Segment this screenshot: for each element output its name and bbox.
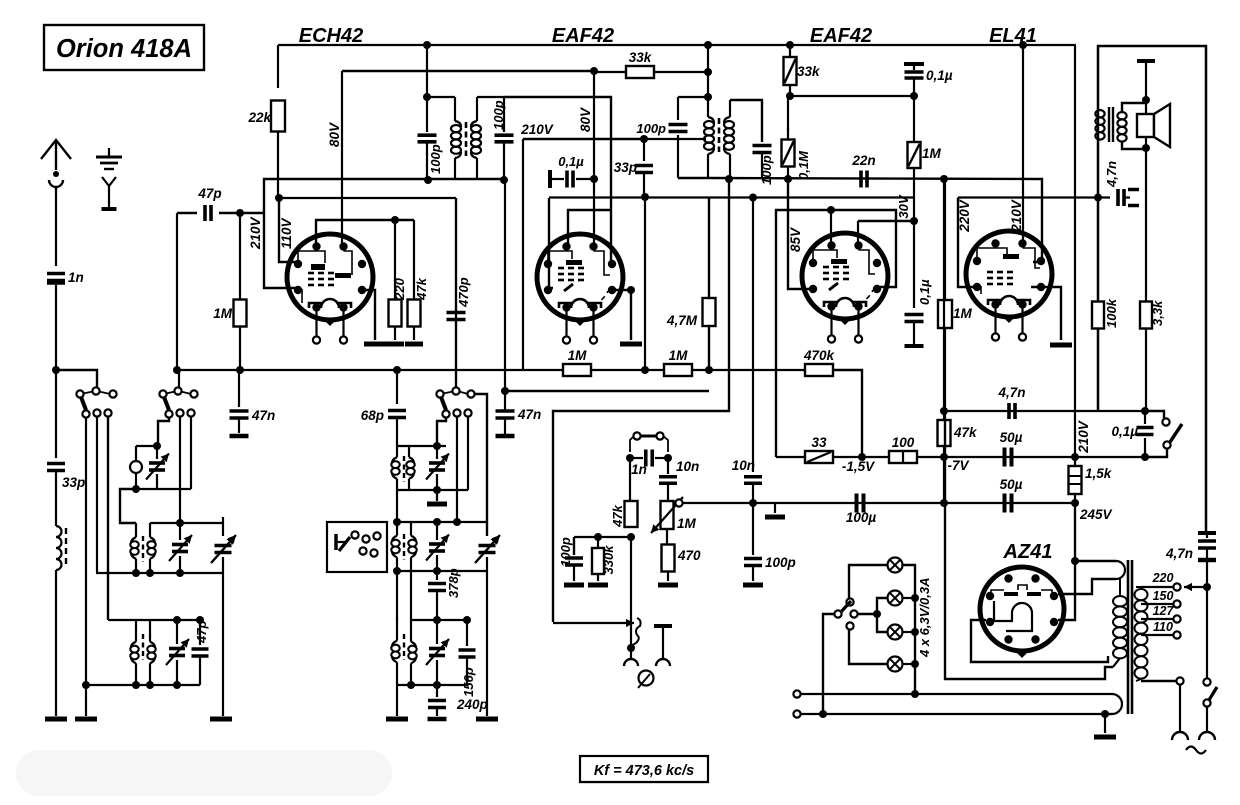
wire 110V grid [279, 198, 299, 262]
tube ECH42 bottom leads [315, 311, 317, 337]
svg-text:210V: 210V [248, 216, 263, 250]
wire bias row [776, 456, 806, 458]
tube EL41 bottom leads [994, 308, 996, 334]
resistor 470 [666, 529, 668, 545]
resistor 220 [394, 220, 396, 300]
svg-text:1M: 1M [213, 306, 233, 321]
ground EL41 [1050, 343, 1072, 348]
svg-text:1M: 1M [669, 348, 689, 363]
antenna symbol [55, 141, 57, 170]
svg-text:240p: 240p [456, 697, 488, 712]
wire x944 179to411 [943, 179, 945, 420]
wire 22k grid right [279, 197, 456, 199]
capacitor 47p osc [199, 620, 201, 645]
svg-text:470p: 470p [456, 277, 471, 308]
capacitor 47n second [504, 180, 506, 391]
node -1,5V [858, 453, 866, 461]
wire switchA c1 [85, 417, 87, 716]
node 1n left [626, 454, 634, 462]
mains tilde [1186, 747, 1206, 754]
wire 80V down to ECH42 anode [341, 71, 343, 250]
svg-text:110V: 110V [279, 217, 294, 249]
svg-text:100p: 100p [558, 537, 573, 567]
wire 80V EAF42 line [593, 71, 595, 244]
svg-text:100p: 100p [759, 155, 774, 185]
IF1 primary coil [454, 97, 456, 121]
wire wiper y503 [683, 502, 1075, 504]
wire avc y537 [574, 536, 631, 538]
T4 right winding [410, 522, 412, 536]
svg-text:100µ: 100µ [846, 510, 877, 525]
T2 trimmer [179, 523, 181, 540]
node 10n det bottom [749, 499, 757, 507]
wire x790 diode [788, 179, 812, 289]
output transformer secondary coil [1117, 112, 1126, 119]
tube EAF42a internals [548, 251, 572, 267]
resistor 33k horizontal [594, 71, 627, 73]
node 1n right [664, 454, 672, 462]
wire IF1 primary feed [426, 45, 428, 97]
svg-text:470k: 470k [803, 348, 836, 363]
capacitor 1n AF [630, 457, 643, 459]
IF2 primary coil [707, 97, 709, 117]
wire y391 [505, 390, 709, 392]
capacitor 0,1u switch [1144, 411, 1146, 424]
svg-text:100p: 100p [428, 144, 443, 174]
svg-text:47n: 47n [517, 407, 541, 422]
tube EAF42a envelope [537, 234, 623, 320]
node switchA c1 bottom [82, 681, 90, 689]
node bus x645 [641, 366, 649, 374]
wire grid bus west [264, 179, 504, 288]
node 330k top [594, 533, 602, 541]
power transformer HV winding [1119, 579, 1121, 596]
tube ECH42 pins [312, 242, 320, 250]
T3 core [142, 634, 144, 660]
T2 top edge [150, 522, 223, 524]
svg-text:220: 220 [392, 277, 407, 300]
lamp wiring right [903, 565, 915, 694]
ground switchA [75, 717, 97, 722]
svg-text:156p: 156p [461, 667, 476, 697]
wire y197 long [549, 196, 914, 198]
svg-text:Kf = 473,6 kc/s: Kf = 473,6 kc/s [594, 763, 694, 779]
band switch box [327, 522, 387, 572]
wire main bus y370 [56, 370, 97, 388]
wire x1206 speaker to cap [1205, 46, 1207, 533]
svg-text:47k: 47k [414, 277, 429, 300]
capacitor 4,7n speaker [1116, 189, 1120, 206]
wire EAF42b TL pin [830, 210, 832, 246]
svg-text:1M: 1M [922, 146, 942, 161]
output transformer core [1108, 107, 1110, 142]
svg-text:100p: 100p [636, 121, 666, 136]
capacitor 68p [396, 370, 398, 404]
svg-text:33k: 33k [797, 64, 821, 79]
node x914 y221 [910, 217, 918, 225]
switch B [178, 370, 180, 388]
T5 trimmer [436, 620, 438, 644]
svg-text:50µ: 50µ [1000, 477, 1023, 492]
svg-text:210V: 210V [520, 122, 554, 137]
wire y139 to coil [644, 138, 706, 140]
wire 22k to grid node [277, 131, 279, 198]
resistor 47k ECH42 [413, 220, 415, 300]
osc2 bottom edge [397, 489, 468, 491]
svg-text:47p: 47p [194, 621, 209, 644]
svg-text:85V: 85V [788, 227, 803, 252]
T2 bottom edge [96, 572, 223, 574]
wire az41 filament LL [971, 620, 1108, 662]
resistor 470k [805, 364, 833, 376]
wire osc1 to T2 [120, 489, 136, 523]
node mains x1105 [1101, 710, 1109, 718]
switch C [452, 387, 459, 394]
svg-text:1n: 1n [631, 462, 647, 477]
lamp wiring left [849, 565, 887, 598]
capacitor 4,7n bias [1007, 403, 1011, 419]
speaker symbol [1137, 114, 1154, 137]
T4 left winding [396, 490, 398, 522]
tube EAF42a pins [562, 242, 570, 250]
phono arrow [553, 622, 634, 624]
wire ECH42 anode entry [342, 245, 344, 250]
resistor 47k AF [629, 458, 631, 502]
wire EL41 cathode ground [1031, 287, 1061, 340]
svg-text:33p: 33p [614, 160, 637, 175]
T4 trimmer [436, 522, 438, 540]
resistor 22k [271, 101, 285, 132]
node y71 x594 [590, 67, 598, 75]
osc1 trimmer [156, 446, 158, 459]
wire mains L2 [793, 710, 800, 717]
tube EAF42b envelope [802, 233, 888, 319]
osc1 coil [130, 461, 142, 473]
tube AZ41 pins [1004, 574, 1012, 582]
plug hook left [1172, 732, 1188, 740]
wire 30V to tube3 [858, 220, 914, 222]
node bus east x944 [940, 175, 948, 183]
capacitor 100p IF2 primary [677, 97, 679, 120]
svg-text:220V: 220V [957, 199, 972, 233]
tube EAF42a bottom leads [565, 311, 567, 337]
ground 470 [658, 583, 678, 588]
ground ECH42 [364, 342, 386, 347]
IF1 secondary top edge [477, 96, 504, 98]
wire AZ41 plate top [1035, 575, 1037, 579]
speaker top bar [1137, 59, 1155, 63]
node 68p top [393, 366, 401, 374]
wire top supply bus [278, 44, 1076, 46]
T3 left winding [135, 620, 137, 642]
resistor 1M anode EAF42b [913, 96, 915, 143]
wire heater bus 679 [945, 420, 1113, 679]
node tap arrow [1203, 583, 1211, 591]
svg-text:330k: 330k [601, 545, 616, 575]
node speaker bottom [1142, 144, 1150, 152]
ground y503 stub [774, 503, 776, 513]
wire y139 grid feed [523, 138, 644, 140]
wire EAF42 g2 inner [568, 210, 611, 246]
T3 right winding [149, 620, 151, 642]
wire switchB c2 [179, 416, 181, 523]
lamp L3 [888, 625, 903, 640]
node 245V [1071, 499, 1079, 507]
node bus 1n [52, 366, 60, 374]
svg-text:22k: 22k [247, 110, 272, 125]
capacitor 378p [436, 571, 438, 580]
svg-text:4,7n: 4,7n [1165, 546, 1193, 561]
resistor 100k [1092, 302, 1104, 329]
tuning gang right [486, 535, 488, 537]
IF1 core dashes [465, 122, 468, 156]
switch A [92, 387, 99, 394]
Kf box shadow line [579, 782, 709, 784]
svg-text:100p: 100p [765, 555, 796, 570]
phono squiggle [631, 618, 641, 646]
node x1145 y457 [1141, 453, 1149, 461]
node y197 x753 [749, 194, 757, 202]
ground 330k [588, 583, 608, 588]
power transformer heater loop [1112, 694, 1122, 714]
capacitor 0,1u coupling [548, 170, 552, 188]
wire az41 plate RL [1058, 561, 1075, 620]
ground 220 [386, 342, 404, 347]
wire EL41 anode drop [1022, 45, 1024, 243]
T2 right winding [149, 523, 151, 537]
IF2 secondary top edge [730, 100, 762, 142]
node bus x709 [705, 366, 713, 374]
svg-text:100k: 100k [1104, 298, 1119, 328]
wire 22k branch down [277, 45, 279, 88]
node top bus IF2 [704, 41, 712, 49]
ground 100p avc [564, 583, 584, 588]
tube ECH42 envelope [287, 234, 373, 320]
svg-text:4,7n: 4,7n [1104, 161, 1119, 188]
T3 top edge [108, 619, 200, 621]
node IF1 sec bottom [500, 176, 508, 184]
IF2 core dashes [718, 118, 721, 152]
capacitor 100p avc [573, 537, 575, 555]
node phono [627, 644, 635, 652]
wire tube3 TR pin up [857, 221, 859, 246]
svg-text:0,1M: 0,1M [796, 150, 811, 180]
wire transformer ground [1104, 714, 1106, 733]
node 220 top [391, 216, 399, 224]
osc2 right winding [408, 446, 410, 457]
osc2 trimmer [436, 446, 438, 459]
svg-text:150: 150 [1153, 589, 1174, 603]
tube AZ41 envelope [980, 567, 1064, 651]
earth ground symbol [108, 148, 110, 156]
resistor 1M bus right [664, 364, 692, 376]
tube EAF42b internals [813, 250, 837, 266]
node bus east 0,1M [784, 175, 792, 183]
wire speaker box [1098, 46, 1206, 535]
capacitor 100u [855, 494, 859, 513]
svg-text:47k: 47k [953, 425, 978, 440]
resistor 1M grid [239, 213, 241, 300]
resistor 1M bus left [563, 364, 591, 376]
wire 4,7n row [944, 410, 1145, 412]
capacitor 10n AF [667, 458, 669, 474]
ground T5 left [396, 685, 398, 716]
wire switchC c3 [467, 416, 469, 490]
svg-text:470: 470 [677, 548, 701, 563]
power transformer primary winding [1136, 586, 1141, 588]
node -7V [940, 453, 948, 461]
node top bus 33k vertical [786, 41, 794, 49]
wire EAF42a box left [549, 198, 553, 288]
tube ECH42 internals [298, 251, 325, 267]
resistor 33 bias [805, 451, 833, 463]
node 33k bottom [786, 92, 794, 100]
wire mains L1 [793, 690, 800, 697]
ground gang left [210, 717, 232, 722]
T2 core [142, 536, 144, 562]
svg-text:Orion 418A: Orion 418A [56, 35, 192, 63]
capacitor 1n antenna [55, 190, 57, 266]
mains switch right [1206, 590, 1208, 679]
tube EL41 envelope [966, 231, 1052, 317]
wire x944 457to503 [943, 457, 945, 503]
node x1145 y411 [1141, 407, 1149, 415]
capacitor 33p IF2 [643, 139, 645, 161]
osc2 top edge [397, 445, 446, 447]
bypass switch 1n [633, 432, 640, 439]
wire tap to plug [1141, 680, 1180, 682]
svg-text:1n: 1n [68, 270, 84, 285]
capacitor 50u first [1003, 448, 1007, 467]
capacitor 22n [859, 171, 863, 188]
svg-text:0,1µ: 0,1µ [926, 68, 953, 83]
wire switchC c2 [456, 416, 458, 522]
IF2 primary top edge [678, 96, 708, 98]
IF1 primary top edge [427, 96, 455, 98]
svg-text:EAF42: EAF42 [810, 25, 872, 47]
resistor 100 bias [889, 451, 917, 463]
wire IF1 sec top to EAF42 grid [504, 97, 611, 263]
wire IF2 primary feed [707, 45, 709, 97]
svg-text:127: 127 [1153, 604, 1175, 618]
wire switchC pivot [455, 198, 457, 388]
wire switchB bracket [158, 417, 169, 446]
lamp L1 [888, 558, 903, 573]
T3 bottom edge [85, 684, 200, 686]
wire 10n to 100p [752, 485, 754, 555]
wire switchA c2 [96, 416, 98, 573]
wire x645 up [644, 197, 646, 370]
tube EAF42b pins [827, 241, 835, 249]
phono jack symbol [639, 671, 654, 686]
svg-text:1M: 1M [568, 348, 588, 363]
capacitor 0,1u EAF42b [905, 313, 924, 317]
wire x914 to 0,1u [913, 221, 915, 308]
T3 trimmer [176, 620, 178, 644]
osc2 core [403, 456, 405, 482]
node 33k to IF2 [704, 68, 712, 76]
resistor 4,7M [708, 198, 710, 372]
title box Orion 418A [44, 25, 204, 70]
switch top right [1145, 411, 1164, 418]
svg-text:100: 100 [892, 435, 915, 450]
svg-text:47k: 47k [610, 504, 625, 527]
T5 bottom edge [397, 684, 467, 686]
ground gang right [476, 717, 498, 722]
wire y694 to transformer [915, 693, 1112, 695]
resistor 1,5k [1074, 45, 1076, 465]
tube EAF42b bottom leads [830, 310, 832, 336]
osc1 bottom edge [136, 488, 191, 490]
wire 47p input [177, 212, 197, 214]
wire grid bus east [678, 178, 1042, 262]
T5 left winding [396, 571, 398, 620]
plug hook right [1199, 732, 1215, 740]
T5 top edge [410, 571, 412, 620]
wire 0,1M top [787, 96, 789, 130]
potentiometer 1M [661, 501, 674, 529]
resistor 47k bias [943, 420, 945, 457]
node 47p right [236, 209, 244, 217]
resistor 3,3k feedback [1145, 149, 1147, 411]
tap arrow [1184, 586, 1207, 588]
svg-text:33: 33 [811, 435, 827, 450]
lamp L2 [888, 591, 903, 606]
node IF1 pri bottom [424, 176, 432, 184]
capacitor 240p [436, 685, 438, 697]
Kf frequency box [580, 756, 708, 782]
node EAF42a diode [627, 286, 635, 294]
capacitor 50u second [1003, 494, 1007, 513]
svg-text:110: 110 [1153, 620, 1173, 634]
node bus east IF2 sec [725, 175, 733, 183]
node top bus EL41 [1019, 41, 1027, 49]
svg-text:AZ41: AZ41 [1003, 541, 1053, 563]
osc1 top edge [136, 445, 158, 447]
svg-text:EAF42: EAF42 [552, 25, 614, 47]
node x594 y179 [590, 175, 598, 183]
svg-text:50µ: 50µ [1000, 430, 1023, 445]
svg-text:378p: 378p [446, 568, 461, 598]
IF2 secondary coil [729, 100, 731, 117]
tube AZ41 internals [1004, 592, 1018, 596]
resistor 330k [597, 537, 599, 548]
node 47k AF bottom [627, 533, 635, 541]
capacitor 156p [466, 620, 468, 646]
node bus x240 [236, 366, 244, 374]
wire EL41 box [958, 198, 979, 288]
svg-text:1M: 1M [953, 306, 973, 321]
antenna coil [56, 526, 62, 570]
ground 47k [405, 342, 423, 347]
node 33p bottom [641, 193, 649, 201]
wire y71 screen feed [342, 70, 594, 72]
svg-text:80V: 80V [327, 122, 342, 147]
capacitor 470p [447, 311, 466, 315]
node az41 junction [1071, 557, 1079, 565]
node bus x177 [173, 366, 181, 374]
svg-text:22n: 22n [851, 153, 875, 168]
wire EAF42a diode plate [612, 290, 631, 340]
wire x523 down [522, 139, 524, 370]
svg-text:1M: 1M [677, 516, 697, 531]
capacitor 100p det [744, 557, 762, 561]
svg-text:ECH42: ECH42 [299, 25, 363, 47]
T5 core [403, 634, 405, 660]
node y139 33p [640, 135, 648, 143]
tube EL41 internals [977, 248, 1007, 264]
wire x1075 az41 [1074, 503, 1076, 561]
